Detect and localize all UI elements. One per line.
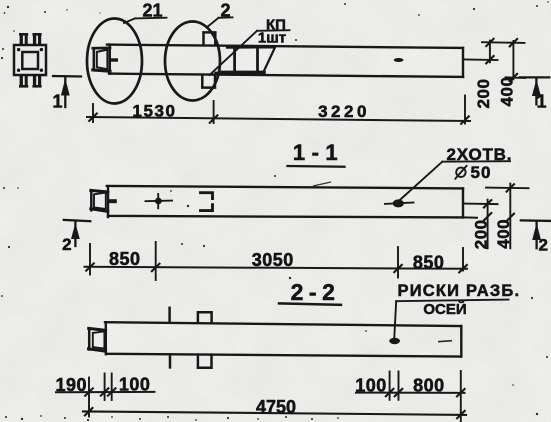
svg-text:21: 21 bbox=[142, 0, 162, 20]
svg-text:190: 190 bbox=[56, 375, 88, 395]
svg-text:200: 200 bbox=[472, 219, 491, 249]
svg-text:2-2: 2-2 bbox=[291, 279, 341, 305]
svg-text:850: 850 bbox=[413, 252, 445, 272]
svg-text:3050: 3050 bbox=[252, 250, 294, 270]
svg-text:1шт: 1шт bbox=[258, 29, 286, 46]
svg-text:1530: 1530 bbox=[132, 102, 176, 121]
svg-text:400: 400 bbox=[497, 77, 516, 107]
svg-text:400: 400 bbox=[494, 219, 513, 249]
svg-text:1: 1 bbox=[52, 92, 62, 112]
svg-text:100: 100 bbox=[119, 374, 151, 394]
svg-text:1-1: 1-1 bbox=[293, 140, 344, 165]
svg-text:2: 2 bbox=[538, 235, 547, 254]
svg-text:РИСКИ РАЗБ.: РИСКИ РАЗБ. bbox=[398, 282, 521, 300]
svg-text:1: 1 bbox=[536, 92, 546, 112]
svg-text:50: 50 bbox=[471, 163, 492, 182]
svg-text:2ХОТВ.: 2ХОТВ. bbox=[447, 145, 513, 164]
svg-text:850: 850 bbox=[109, 249, 141, 269]
svg-text:800: 800 bbox=[413, 376, 445, 396]
svg-text:2: 2 bbox=[62, 235, 71, 254]
svg-text:4750: 4750 bbox=[256, 397, 296, 417]
svg-text:100: 100 bbox=[355, 375, 387, 395]
svg-text:3220: 3220 bbox=[318, 102, 370, 121]
svg-text:200: 200 bbox=[474, 79, 493, 109]
svg-text:2: 2 bbox=[220, 0, 230, 20]
svg-text:ОСЕЙ: ОСЕЙ bbox=[423, 300, 466, 318]
